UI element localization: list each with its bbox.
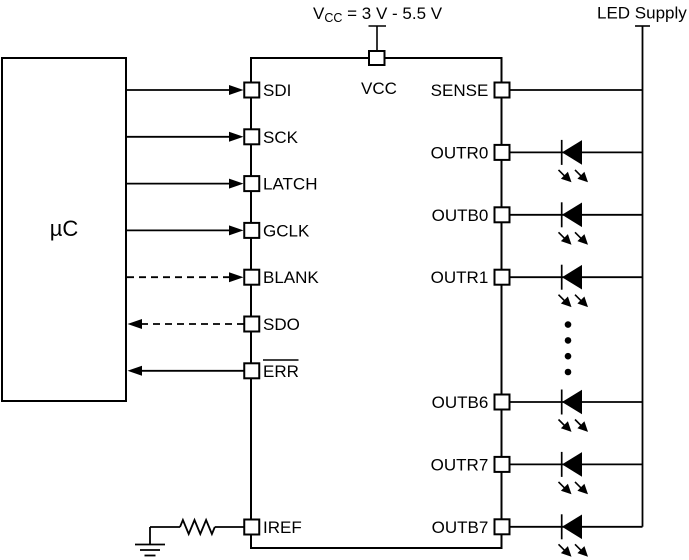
svg-text:BLANK: BLANK [263,268,319,287]
VCC supply terminal [369,26,387,50]
pin SENSE [431,81,510,100]
microcontroller U2 (uC) box [2,58,126,401]
ellipsis dots (outputs continue) [565,321,572,375]
wire ERR [128,366,246,376]
LED D2 [559,202,589,244]
wire GCLK [127,225,244,235]
pin OUTB0 [432,206,510,225]
ground [135,545,165,556]
LED D1 [559,140,589,182]
LED D4 [559,390,589,432]
LED D5 [559,452,589,494]
svg-text:OUTR0: OUTR0 [431,143,489,162]
svg-text:OUTB6: OUTB6 [432,393,489,412]
svg-text:µC: µC [50,216,79,241]
wire SENSE to LED supply [510,89,643,91]
pin ERR [244,360,299,381]
pin OUTB6 [432,393,510,412]
pin LATCH [244,175,317,194]
wire OUTB7 to LED supply rail [510,526,643,528]
pin OUTR1 [431,268,510,287]
wire SDO (dashed) [128,319,246,329]
wire OUTB0 to LED supply rail [510,214,643,216]
svg-text:VCC = 3 V - 5.5 V: VCC = 3 V - 5.5 V [313,4,443,25]
svg-text:VCC: VCC [361,79,397,98]
wire resistor to IREF pin [215,526,245,528]
IC U1 (LED driver) box [251,58,502,548]
wire LATCH [127,179,244,189]
svg-text:SENSE: SENSE [431,81,489,100]
pin OUTR7 [431,455,510,474]
svg-text:GCLK: GCLK [263,221,310,240]
wire SDI [127,85,244,95]
wire SCK [127,132,244,142]
wire OUTR7 to LED supply rail [510,463,643,465]
pin GCLK [244,221,310,240]
svg-text:IREF: IREF [263,518,302,537]
svg-text:OUTB7: OUTB7 [432,518,489,537]
pin SCK [244,128,298,147]
pin BLANK [244,268,319,287]
wire ground to resistor [150,527,180,545]
svg-text:SDO: SDO [263,315,300,334]
pin IREF [244,518,301,537]
svg-text:OUTB0: OUTB0 [432,206,489,225]
pin SDO [244,315,300,334]
wire OUTR1 to LED supply rail [510,276,643,278]
pin VCC [361,51,397,98]
wire LED supply rail [642,26,644,527]
LED Supply terminal [635,25,650,27]
svg-text:LATCH: LATCH [263,175,317,194]
pin SDI [244,81,291,100]
LED D3 [559,265,589,307]
svg-text:OUTR1: OUTR1 [431,268,489,287]
wire BLANK (dashed) [127,272,244,282]
svg-text:ERR: ERR [263,362,299,381]
svg-text:LED Supply: LED Supply [597,4,687,23]
LED D6 [559,514,589,556]
resistor R1 (IREF set resistor) [180,520,215,534]
svg-text:OUTR7: OUTR7 [431,455,489,474]
pin OUTB7 [432,518,510,537]
pin OUTR0 [431,143,510,162]
svg-text:SCK: SCK [263,128,299,147]
wire OUTR0 to LED supply rail [510,151,643,153]
wire OUTB6 to LED supply rail [510,401,643,403]
svg-text:SDI: SDI [263,81,291,100]
